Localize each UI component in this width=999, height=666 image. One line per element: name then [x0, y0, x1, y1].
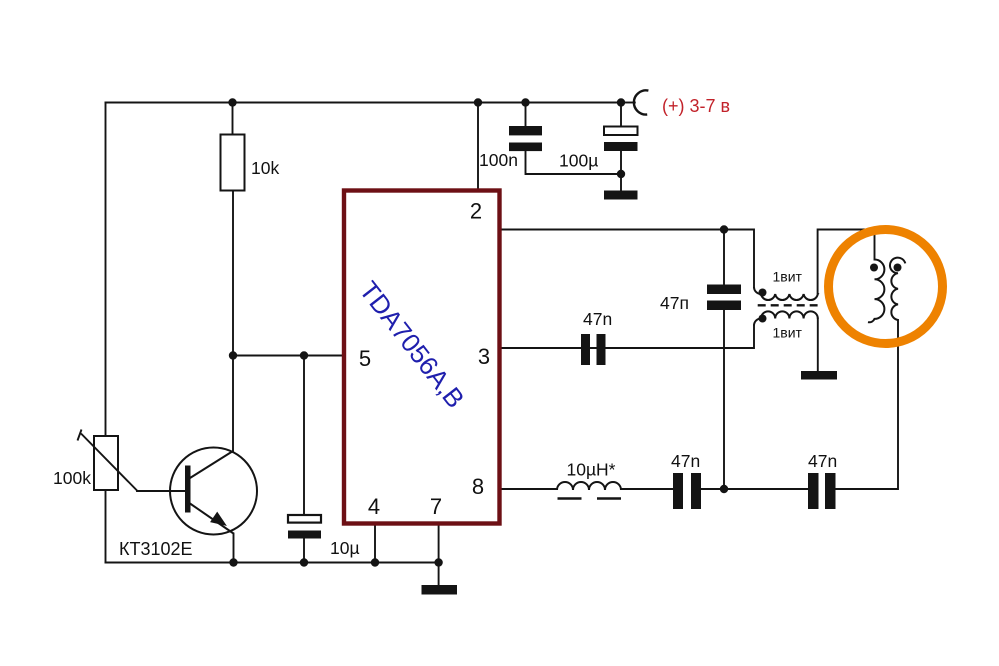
ground G1 — [604, 191, 638, 200]
transformer T1 lower winding — [754, 311, 818, 325]
wire bottom rail — [106, 562, 439, 564]
antenna circle — [829, 230, 943, 344]
wire pin 2 to transformer — [502, 230, 755, 288]
wire 100n bottom to junction — [526, 151, 622, 174]
svg-text:100µ: 100µ — [559, 151, 598, 171]
potentiometer R2 100k — [78, 430, 138, 491]
wire pin 7 lead — [438, 525, 440, 585]
phase dot left coil — [870, 264, 878, 272]
wire transformer lower right to ground — [817, 319, 819, 371]
phase dot right coil — [894, 264, 902, 272]
wire left vertical — [105, 103, 107, 563]
wire base — [137, 490, 186, 492]
capacitor C5 47n — [673, 473, 701, 509]
wire top rail — [106, 102, 622, 104]
svg-text:47п: 47п — [660, 293, 689, 313]
capacitor C1 10u — [288, 515, 321, 539]
phase dot upper — [759, 289, 767, 297]
IC U1 TDA7056A,B — [344, 191, 500, 524]
node top-100n — [521, 98, 529, 106]
capacitor C2 100n — [509, 126, 542, 151]
node top-resistor — [228, 98, 236, 106]
node rail-emitter — [229, 558, 237, 566]
node pin2-47p — [720, 225, 728, 233]
power connector — [634, 90, 648, 114]
antenna right coil — [890, 258, 905, 320]
svg-text:7: 7 — [430, 494, 442, 519]
wire top to IC — [477, 103, 479, 189]
svg-text:47n: 47n — [808, 451, 837, 471]
wire cap to antenna riser — [836, 320, 899, 489]
phase dot lower — [759, 315, 767, 323]
node rail-10u — [300, 558, 308, 566]
wire pin 3 to transformer lower winding — [502, 326, 755, 349]
ground G3 — [801, 371, 837, 380]
wire cap to junction — [701, 488, 808, 490]
svg-text:4: 4 — [368, 494, 380, 519]
svg-text:100n: 100n — [479, 150, 518, 170]
svg-text:5: 5 — [359, 346, 371, 371]
wire to power connector — [621, 102, 635, 104]
svg-text:КТ3102Е: КТ3102Е — [119, 539, 193, 559]
capacitor C7 47n — [808, 473, 836, 509]
wire 100u top lead — [620, 103, 622, 128]
svg-text:1вит: 1вит — [773, 269, 803, 285]
wire 10u top lead — [303, 356, 305, 516]
svg-text:100k: 100k — [53, 468, 91, 488]
wire emitter to rail — [233, 534, 235, 563]
svg-text:8: 8 — [472, 474, 484, 499]
ground G2 — [422, 585, 458, 595]
wire 10u bottom lead — [303, 539, 305, 563]
svg-text:47n: 47n — [583, 309, 612, 329]
node pin5-collector — [229, 351, 237, 359]
svg-text:2: 2 — [470, 199, 482, 224]
transformer T1 upper winding — [754, 287, 819, 300]
capacitor C3 100u — [604, 127, 638, 152]
node top-100u — [617, 98, 625, 106]
node rail-pin7 — [434, 558, 442, 566]
transformer core — [758, 304, 818, 306]
wire pin 4 lead — [374, 525, 376, 563]
svg-text:47n: 47n — [671, 451, 700, 471]
wire transformer upper right link — [818, 230, 875, 294]
wire 47p bottom branch crossing — [723, 310, 725, 489]
wire resistor top lead — [232, 103, 234, 136]
inductor L1 10uH — [557, 482, 621, 499]
node 100n-100u — [617, 170, 625, 178]
svg-text:(+) 3-7 в: (+) 3-7 в — [662, 96, 730, 116]
node pin8-47p — [720, 485, 728, 493]
node rail-pin4 — [371, 558, 379, 566]
wire 100n top lead — [525, 103, 527, 127]
wire 100u bottom lead — [620, 151, 622, 191]
capacitor C4 47n — [581, 334, 606, 365]
wire pin 8 to inductor — [502, 488, 558, 490]
svg-text:3: 3 — [478, 344, 490, 369]
svg-text:10µ: 10µ — [330, 538, 360, 558]
capacitor C6 47p — [707, 285, 741, 311]
wire inductor to cap — [621, 488, 673, 490]
resistor R1 10k — [221, 135, 245, 191]
antenna left coil — [868, 260, 884, 323]
wire pin 5 — [233, 355, 343, 357]
svg-text:10k: 10k — [251, 158, 279, 178]
transistor Q1 KT3102E — [170, 448, 257, 535]
wire 47p top branch — [723, 230, 725, 285]
wire resistor to collector — [232, 190, 234, 451]
node pin5-10u — [300, 351, 308, 359]
svg-text:1вит: 1вит — [773, 325, 803, 341]
svg-text:10µH*: 10µH* — [567, 460, 616, 480]
node top-IC — [474, 98, 482, 106]
